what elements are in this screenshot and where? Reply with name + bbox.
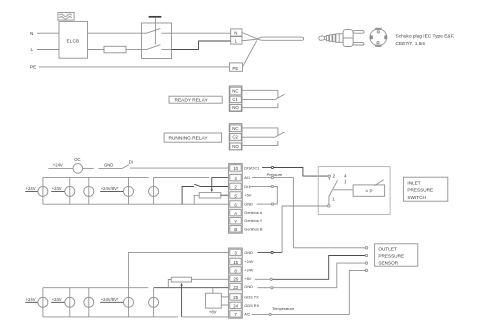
- terminal X1-5: [230, 192, 241, 199]
- svg-text:+24V/8V*: +24V/8V*: [101, 297, 119, 302]
- wire L input: [37, 49, 59, 51]
- wire relay K2 NO: [242, 103, 278, 108]
- test point circle 26: [270, 278, 272, 280]
- svg-text:Genibus B: Genibus B: [244, 226, 263, 231]
- svg-text:+24V: +24V: [52, 297, 62, 302]
- READY RELAY label box: [169, 96, 222, 104]
- GDS module U2 box: [206, 293, 222, 308]
- svg-text:+24V: +24V: [52, 186, 62, 191]
- plug pin top: [353, 31, 364, 34]
- svg-text:Pressure: Pressure: [267, 172, 283, 177]
- svg-text:SENSOR: SENSOR: [378, 261, 398, 266]
- wire U2 top to GND bus: [212, 288, 214, 294]
- R1 wiper arrowhead: [211, 189, 213, 192]
- wire relay K3 C2: [242, 136, 274, 138]
- svg-text:Genibus Y: Genibus Y: [244, 218, 263, 223]
- svg-text:PE: PE: [30, 65, 36, 70]
- socket pin hole bottom: [377, 41, 379, 43]
- svg-text:PRESSURE: PRESSURE: [407, 188, 433, 193]
- terminal X1-10: [230, 165, 241, 172]
- pressure switch pin 1 circle: [328, 205, 330, 207]
- wire DI1 jumper to GND: [250, 186, 277, 204]
- connector J5: [149, 177, 159, 204]
- wire bottom top bus segment A: [43, 287, 148, 289]
- wire DI1 to terminal 2: [200, 186, 229, 188]
- terminal N box: [231, 29, 242, 36]
- svg-text:PRESSURE: PRESSURE: [378, 254, 404, 259]
- connector J2: [65, 177, 75, 204]
- plug cable tail: [318, 36, 324, 41]
- relay K2 terminal block NC C1 NO: [229, 86, 242, 112]
- wire R2 wiper down to terminal 7 line: [181, 285, 183, 317]
- wire L ELCB to fuse: [88, 49, 105, 51]
- test point circle DI1: [271, 185, 273, 187]
- pressure switch pin 4 stub: [344, 180, 346, 185]
- contactor K1 box: [142, 23, 172, 59]
- sensor pin circle 2: [365, 254, 367, 256]
- wire R1 wiper to terminal 4: [212, 178, 230, 191]
- svg-text:GDS TX: GDS TX: [244, 294, 259, 299]
- terminal X1-Y: [230, 218, 241, 225]
- relay K3 changeover blade: [274, 132, 284, 138]
- plug strain relief ribs: [324, 34, 335, 41]
- svg-text:+24V: +24V: [244, 259, 254, 264]
- terminal X1-2: [230, 183, 241, 190]
- svg-text:+24V: +24V: [26, 186, 36, 191]
- svg-text:NO: NO: [232, 144, 239, 149]
- contactor contact L: [142, 45, 172, 50]
- svg-text:DI: DI: [129, 160, 133, 165]
- wire GND terminal 6 stub: [257, 203, 272, 205]
- socket pin hole top: [377, 31, 379, 33]
- wire +8V 26 to outlet sensor: [255, 256, 366, 280]
- terminal X1-4: [230, 174, 241, 181]
- RUNNING RELAY label box: [164, 133, 222, 142]
- terminal X2-15: [230, 258, 241, 265]
- wire relay K2 C1: [242, 99, 274, 101]
- svg-text:READY RELAY: READY RELAY: [175, 98, 209, 104]
- pressure switch blade: [329, 180, 338, 204]
- wire stub to connector J1: [25, 190, 38, 192]
- terminal X2-3: [230, 249, 241, 256]
- wire fuse to contactor: [126, 49, 142, 51]
- terminal strip X2 outer: [228, 248, 242, 318]
- terminal X2-26: [230, 275, 241, 282]
- wire PE to cord junction: [243, 41, 257, 67]
- contactor actuator link: [154, 18, 156, 45]
- svg-text:Schuko plug IEC Type E&F,: Schuko plug IEC Type E&F,: [396, 34, 455, 40]
- terminal X1-B: [230, 226, 241, 233]
- wire N ELCB to contactor: [88, 32, 142, 34]
- svg-text:ELCB: ELCB: [67, 38, 80, 43]
- pressure switch pin 2 circle: [328, 175, 330, 177]
- wire N to cord junction: [242, 33, 257, 39]
- test point circle AI2: [269, 313, 271, 315]
- wire stub to connector J7: [51, 301, 65, 303]
- svg-text:+24V/8V*: +24V/8V*: [101, 186, 119, 191]
- socket front view outline: [370, 28, 387, 46]
- power cord cable: [256, 37, 303, 40]
- pressure switch B1 box: [318, 167, 390, 215]
- pressure element box: [353, 185, 385, 196]
- svg-text:+5V: +5V: [244, 193, 251, 198]
- wire +24V to OC: [48, 167, 73, 169]
- svg-text:GND: GND: [104, 162, 113, 167]
- wire R2 right lead to terminal 26: [192, 278, 230, 280]
- svg-text:CEE7/7, 1,5m: CEE7/7, 1,5m: [396, 41, 426, 47]
- svg-text:+8V: +8V: [209, 310, 217, 315]
- wire bottom bus GND to terminal 6: [43, 203, 230, 205]
- R2 wiper arrowhead: [180, 283, 182, 286]
- terminal PE box: [230, 63, 243, 71]
- svg-text:15: 15: [233, 260, 238, 265]
- wire bottom top bus segment B to terminal 23: [154, 287, 230, 289]
- test winding symbol on ELCB: [58, 13, 74, 21]
- svg-text:26: 26: [233, 277, 238, 282]
- svg-text:DI3/OC1: DI3/OC1: [244, 165, 259, 170]
- svg-text:1: 1: [332, 197, 335, 202]
- wire U2 to terminal 25: [221, 296, 229, 298]
- svg-text:2: 2: [333, 174, 336, 179]
- connector OC circle: [73, 164, 83, 174]
- svg-text:SWITCH: SWITCH: [407, 195, 426, 200]
- terminal X2-24: [230, 302, 241, 309]
- svg-text:GND: GND: [244, 284, 253, 289]
- svg-text:N: N: [234, 31, 237, 36]
- wire relay K2 NC: [242, 90, 278, 98]
- svg-text:Temperature: Temperature: [272, 306, 294, 311]
- wire top bus 24V segment A: [43, 176, 149, 178]
- svg-text:INLET: INLET: [407, 180, 420, 185]
- svg-text:+8V: +8V: [244, 276, 251, 281]
- svg-text:GND: GND: [244, 250, 253, 255]
- connector J6: [38, 288, 48, 317]
- switch DI1 blade: [194, 184, 200, 186]
- svg-text:+24V: +24V: [244, 268, 254, 273]
- sensor pin circle 3: [365, 262, 367, 264]
- wire stub to connector J9: [100, 301, 123, 303]
- contactor contact N: [142, 28, 172, 33]
- svg-text:NC: NC: [232, 126, 238, 131]
- switch DI blade: [122, 165, 129, 169]
- wire GND3 right to riser: [257, 251, 282, 253]
- connector J9: [124, 297, 134, 317]
- svg-text:N: N: [30, 31, 33, 36]
- svg-text:< P: < P: [366, 189, 373, 194]
- svg-text:GND: GND: [244, 202, 253, 207]
- wire R2 left lead to bus: [168, 280, 171, 288]
- pressure element link: [333, 189, 353, 191]
- wire DI to terminal 10: [130, 167, 230, 169]
- svg-text:4: 4: [344, 174, 347, 179]
- wire GND3 to pressure switch pin 1: [282, 206, 328, 252]
- svg-text:B: B: [234, 227, 237, 232]
- svg-text:GDS RX: GDS RX: [244, 303, 259, 308]
- connector J7: [65, 288, 75, 317]
- svg-text:OUTLET: OUTLET: [378, 247, 397, 252]
- wire AI2 to outlet sensor: [252, 270, 366, 314]
- wire stub to connector J4: [100, 190, 123, 192]
- test point circle AI1: [271, 177, 273, 179]
- wire AI1 to outlet sensor: [252, 178, 366, 248]
- wire N input: [37, 32, 59, 34]
- svg-text:L: L: [235, 39, 238, 44]
- wire GND to DI switch: [98, 167, 122, 169]
- wire top bus 24V segment B: [154, 176, 210, 178]
- wire R1 right lead to terminal 5: [221, 194, 230, 196]
- svg-text:RUNNING RELAY: RUNNING RELAY: [169, 136, 209, 142]
- test point circle 23: [271, 287, 273, 289]
- svg-text:+24V: +24V: [53, 163, 63, 168]
- svg-text:Y: Y: [234, 219, 237, 224]
- svg-text:AI2: AI2: [244, 311, 250, 316]
- svg-text:C2: C2: [232, 135, 238, 140]
- wire N contactor to terminal N: [172, 32, 231, 34]
- potentiometer R2 body: [171, 277, 191, 282]
- wire relay K3 NO: [242, 141, 278, 146]
- wire L to cord junction: [242, 39, 257, 41]
- plug collar block: [336, 34, 343, 43]
- terminal X1-A: [230, 209, 241, 216]
- contactor actuator bar: [149, 16, 162, 18]
- wire L contactor with step up: [172, 41, 231, 50]
- socket earth contact right: [384, 36, 387, 40]
- sensor pin circle 1: [365, 247, 367, 249]
- INLET PRESSURE SWITCH label box: [403, 177, 447, 201]
- svg-text:AI1: AI1: [244, 175, 250, 180]
- connector J8: [84, 288, 94, 317]
- svg-text:Genibus A: Genibus A: [244, 210, 262, 215]
- sensor pin circle 4: [365, 269, 367, 271]
- socket earth contact left: [370, 36, 373, 40]
- svg-text:C1: C1: [232, 97, 238, 102]
- wire stub to connector J6: [25, 301, 38, 303]
- test point circle DI3/OC1: [271, 166, 273, 168]
- plug pin bottom: [353, 42, 364, 45]
- connector J4: [124, 177, 134, 204]
- svg-text:A: A: [234, 211, 237, 216]
- relay K3 terminal block NC C2 NO: [229, 124, 242, 150]
- terminal X2-7: [230, 311, 241, 318]
- svg-text:10: 10: [233, 166, 238, 171]
- test point circle GND3: [271, 251, 273, 253]
- svg-text:L: L: [31, 47, 34, 52]
- relay K2 changeover blade: [274, 94, 284, 100]
- terminal strip X1 outer: [228, 164, 242, 234]
- svg-text:NO: NO: [232, 105, 239, 110]
- wire DI1 fixed side: [182, 187, 194, 205]
- pressure switch pin 2 stub: [328, 177, 330, 180]
- potentiometer R1 body: [199, 193, 221, 198]
- wire relay K3 NC: [242, 128, 278, 136]
- fuse F1: [104, 46, 126, 53]
- svg-text:+24V: +24V: [26, 297, 36, 302]
- svg-text:23: 23: [233, 285, 238, 290]
- wire DI3/OC1 to pressure switch pin 2: [262, 168, 328, 177]
- plug body side view: [343, 30, 353, 47]
- terminal X2-25: [230, 294, 241, 301]
- label schuko plug text: [396, 34, 455, 48]
- wire U2 to terminal 24: [221, 304, 229, 306]
- ELCB U1 (earth leakage circuit breaker): [59, 21, 88, 58]
- svg-text:25: 25: [233, 295, 238, 300]
- pressure element adjust arrow: [375, 180, 384, 186]
- connector J10: [149, 288, 159, 317]
- connector J1: [38, 177, 48, 204]
- wire bottom bus to terminal 7: [43, 316, 178, 318]
- wire stub to connector J2: [51, 190, 65, 192]
- svg-text:DI1: DI1: [244, 184, 250, 189]
- terminal X2-23: [230, 283, 241, 290]
- terminal X2-8: [230, 267, 241, 274]
- connector J3: [84, 177, 94, 204]
- wire R1 left lead to GND bus: [194, 195, 199, 204]
- svg-text:24: 24: [233, 304, 238, 309]
- wire terminal 3 GND to connector J9: [129, 252, 230, 297]
- terminal X1-6: [230, 201, 241, 208]
- terminal L box: [231, 37, 242, 45]
- svg-text:NC: NC: [232, 89, 238, 94]
- svg-text:PE: PE: [232, 66, 238, 71]
- svg-text:OC: OC: [74, 157, 80, 162]
- wire PE: [39, 66, 230, 68]
- wire GND 23 to outlet sensor: [257, 263, 365, 288]
- OUTLET PRESSURE SENSOR label box: [375, 244, 418, 266]
- wire OC stub: [83, 167, 94, 169]
- test point circle GND6: [271, 203, 273, 205]
